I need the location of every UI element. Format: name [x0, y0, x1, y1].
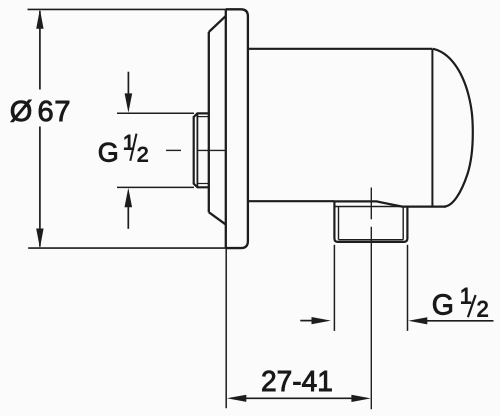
dimension Ø67 [39, 11, 41, 247]
dimension line [245, 397, 352, 399]
extension line left (plate edge extended) [225, 248, 227, 408]
arrowhead up to ext [125, 188, 133, 207]
arrowhead down [36, 229, 43, 249]
extension line bottom [117, 186, 194, 188]
wall flange plate [28, 9, 248, 248]
center line vertical (outlet axis) [370, 188, 372, 410]
dimension G1/2 left (inlet) [117, 72, 194, 229]
body top edge [248, 48, 433, 50]
svg-text:27-41: 27-41 [261, 365, 333, 397]
label G 1/2 right [432, 283, 489, 321]
cone slant bottom [209, 212, 226, 224]
svg-text:2: 2 [477, 297, 489, 322]
left inlet fitting G1/2 [194, 113, 210, 187]
arrow tail right [425, 320, 494, 322]
arrow stem lower [127, 206, 129, 229]
extension line right [407, 245, 409, 331]
thread minor left [338, 207, 340, 240]
svg-text:G: G [98, 138, 119, 168]
svg-text:Ø: Ø [10, 96, 33, 128]
body bottom edge west [248, 200, 334, 202]
chamfer boundary [196, 113, 198, 187]
svg-text:G: G [432, 290, 454, 322]
main body [248, 49, 473, 207]
boss top edge and slant [334, 201, 446, 206]
arrowhead down to ext [125, 93, 133, 112]
arrowhead left-pointing [227, 395, 247, 402]
center line horizontal (inlet axis) [166, 149, 226, 151]
chamfer line [339, 239, 404, 241]
dimension G1/2 bottom (outlet) [300, 245, 493, 331]
svg-text:2: 2 [137, 143, 149, 167]
plate left edge [225, 9, 227, 248]
arrowhead up [36, 9, 43, 29]
cone face [208, 32, 210, 212]
plate outline [226, 9, 248, 248]
thread minor right [402, 207, 404, 240]
arrowhead left-pointing [408, 317, 427, 324]
cap seam [431, 49, 433, 207]
extension line left [333, 245, 335, 331]
fitting outline with chamfered end [194, 113, 210, 187]
dimension 27-41 [226, 248, 352, 408]
cap dome [433, 49, 473, 207]
arrow stem upper [127, 72, 129, 95]
arrow tail left [300, 320, 314, 322]
thread minor line top [197, 116, 209, 118]
svg-text:67: 67 [38, 96, 72, 128]
arrowhead right-pointing [312, 317, 331, 324]
fitting outline [334, 201, 407, 242]
cone slant top [209, 16, 226, 32]
svg-text:1: 1 [460, 283, 472, 308]
bottom outlet fitting G1/2 [334, 201, 407, 242]
arrowhead right-pointing [351, 395, 371, 402]
extension line top [117, 112, 194, 114]
thread minor line bottom [197, 183, 209, 185]
extension line bottom (collinear with plate bottom) [28, 247, 226, 249]
extension line top (collinear with plate top) [28, 8, 227, 10]
boss bottom line [335, 206, 407, 208]
label G 1/2 left [98, 130, 149, 167]
